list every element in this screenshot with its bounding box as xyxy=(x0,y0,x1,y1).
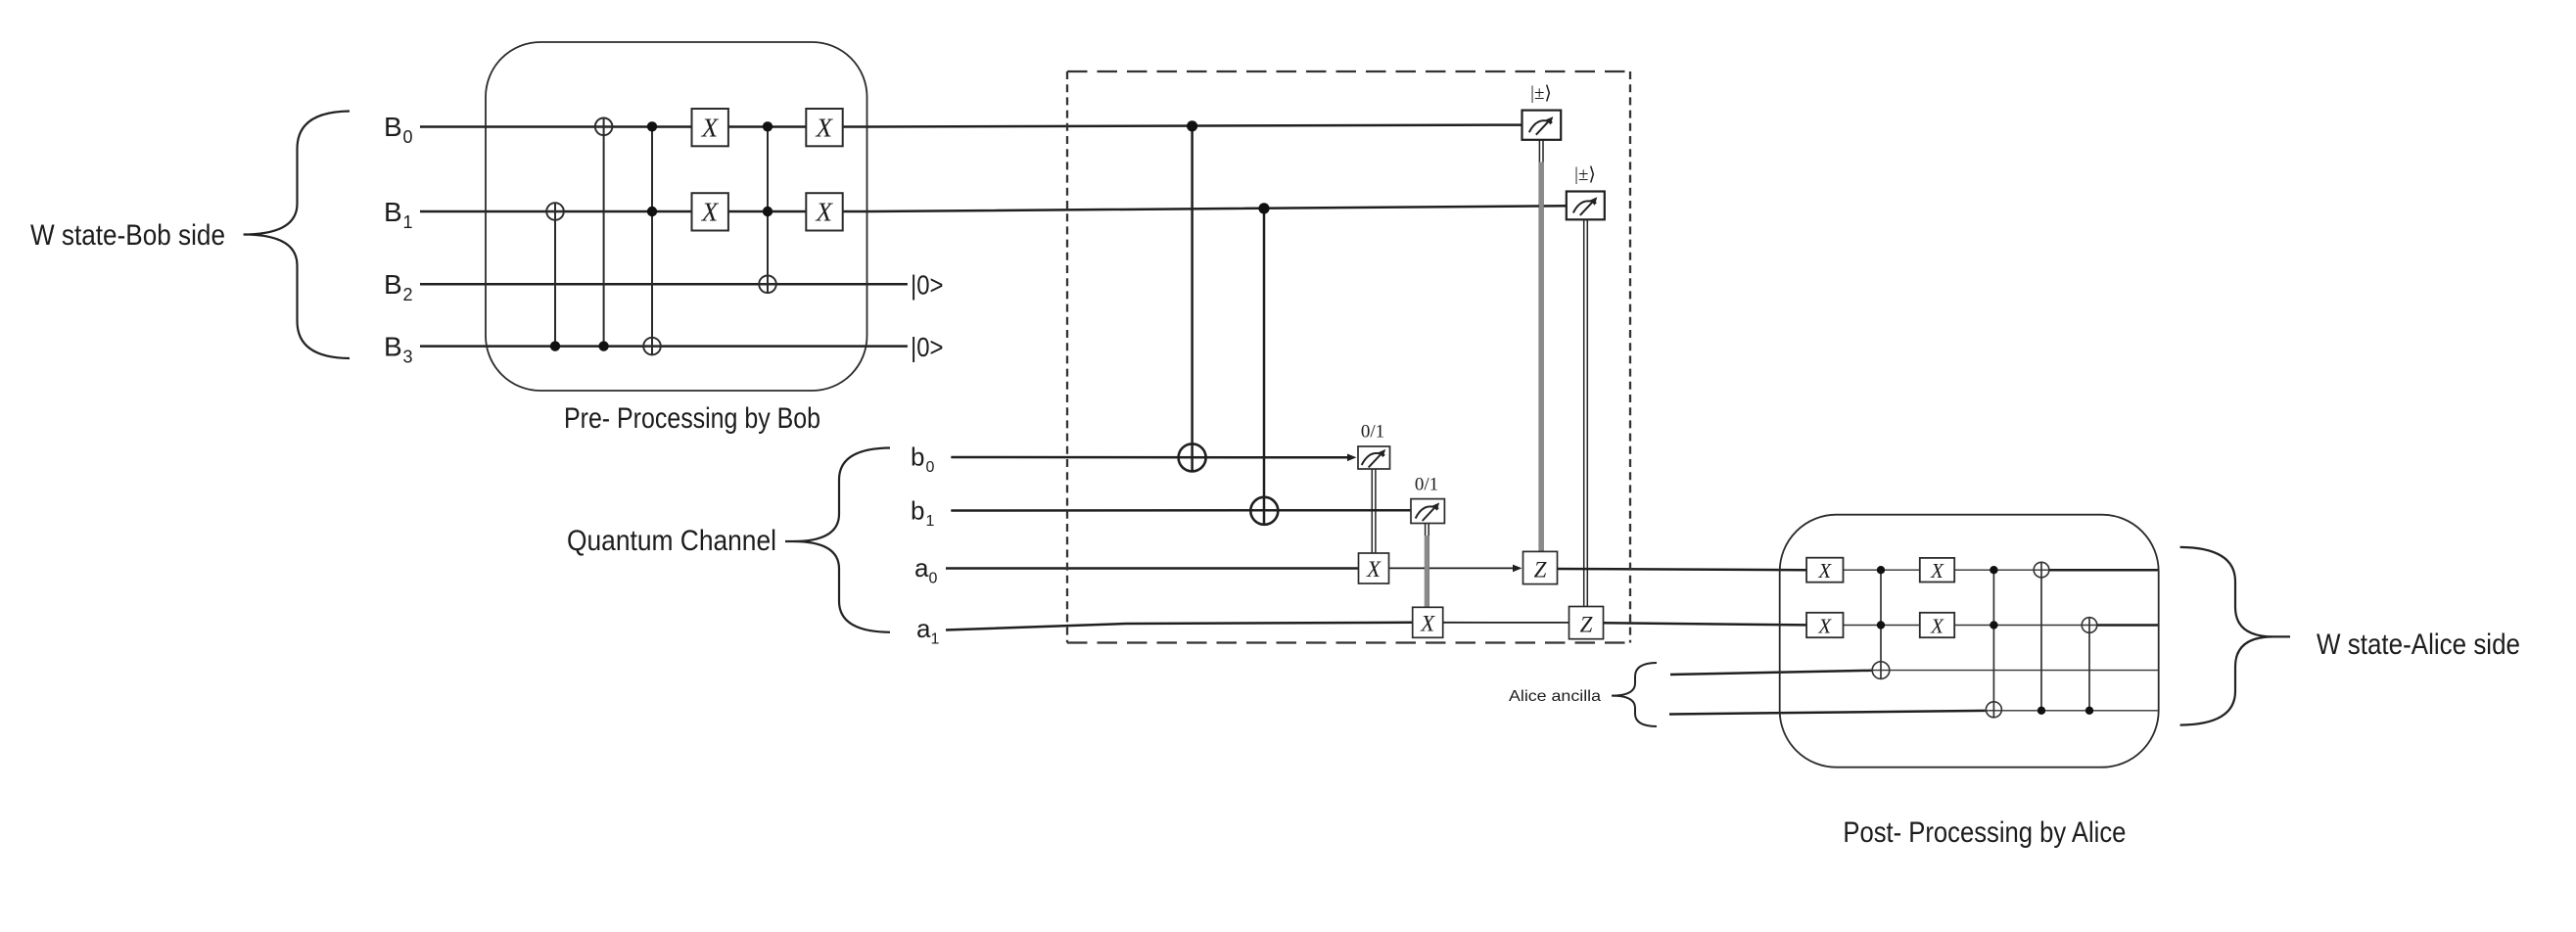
svg-text:Post- Processing by Alice: Post- Processing by Alice xyxy=(1843,816,2126,849)
label: Alice ancilla xyxy=(1509,688,1601,705)
node |0> on B2 xyxy=(911,270,944,301)
wire b0 xyxy=(951,454,1356,462)
svg-text:b: b xyxy=(911,496,924,526)
gate Toffoli (controls a0 a1, target ancilla2) xyxy=(1986,566,2001,718)
svg-text:1: 1 xyxy=(926,513,935,530)
gate X on a1 (classically controlled) xyxy=(1413,607,1443,637)
gate CNOT (target B1, control B3) xyxy=(546,203,564,351)
label: Quantum Channel xyxy=(567,525,776,557)
svg-text:B: B xyxy=(384,197,402,227)
measurement M(B1) with |±> label xyxy=(1567,164,1605,219)
box: Post-Processing by Alice xyxy=(1780,515,2159,768)
svg-text:Pre- Processing by Bob: Pre- Processing by Bob xyxy=(564,402,820,435)
svg-text:X: X xyxy=(816,198,834,227)
svg-text:X: X xyxy=(1420,611,1435,635)
gate Toffoli (controls B0 B1, target B3) xyxy=(643,121,661,354)
brace: left (W state-Bob side) xyxy=(244,112,350,359)
wire B1 xyxy=(420,206,1567,211)
node a0 label xyxy=(914,553,938,587)
gate X on a0 (post, second) xyxy=(1920,558,1954,582)
wire a0 (inside post box, thin) xyxy=(1844,569,2159,571)
classical wire: meas B0 to Z a0 (gray overlay) xyxy=(1539,140,1543,551)
brace: right (W state-Alice side) xyxy=(2180,547,2290,725)
node B2 label xyxy=(384,269,413,304)
measurement M(b0) with 0/1 label xyxy=(1358,422,1390,470)
box: dashed quantum-channel region xyxy=(1067,71,1630,643)
gate CNOT (target B0, control B3) xyxy=(595,118,613,351)
label: W state-Bob side xyxy=(30,219,225,252)
svg-text:B: B xyxy=(384,269,402,300)
svg-text:0: 0 xyxy=(929,571,938,587)
wire ancilla1 xyxy=(1670,671,2158,675)
label: Post- Processing by Alice xyxy=(1843,816,2126,849)
svg-text:X: X xyxy=(816,114,834,143)
gate X on a0 (post, first) xyxy=(1806,558,1843,582)
gate CNOT (control ancilla2, target a0) xyxy=(2034,562,2049,715)
gate CNOT (control B1, target b1) xyxy=(1250,203,1278,525)
gate Z on a1 (classically controlled) xyxy=(1569,607,1604,639)
svg-text:X: X xyxy=(1930,614,1944,637)
svg-text:Z: Z xyxy=(1534,558,1547,582)
svg-text:0/1: 0/1 xyxy=(1361,422,1384,443)
label: W state-Alice side xyxy=(2317,629,2520,661)
svg-text:Z: Z xyxy=(1580,613,1593,637)
gate X on a1 (post, first) xyxy=(1806,613,1843,638)
svg-text:X: X xyxy=(1930,559,1944,582)
svg-text:X: X xyxy=(701,198,720,227)
node b1 label xyxy=(911,496,935,531)
svg-text:|±⟩: |±⟩ xyxy=(1574,164,1596,185)
svg-text:a: a xyxy=(914,553,929,582)
gate X on B0 (first) xyxy=(692,109,728,146)
wire a1 (inside post box, thin) xyxy=(1844,625,2159,627)
gate Toffoli (controls a0 a1, target ancilla1) xyxy=(1872,566,1890,678)
gate X on B1 (second) xyxy=(806,193,842,230)
svg-text:W state-Alice side: W state-Alice side xyxy=(2317,629,2520,661)
svg-text:B: B xyxy=(384,332,402,362)
wire a0 xyxy=(946,565,1806,573)
svg-text:1: 1 xyxy=(403,212,413,232)
svg-text:|±⟩: |±⟩ xyxy=(1530,83,1552,104)
svg-text:B: B xyxy=(384,112,402,142)
svg-text:X: X xyxy=(1817,559,1832,582)
wire a1 xyxy=(946,623,1806,630)
svg-text:X: X xyxy=(1817,614,1832,637)
classical wire: meas b1 to X a1 (gray overlay) xyxy=(1426,524,1429,608)
svg-text:b: b xyxy=(911,443,924,472)
svg-text:0/1: 0/1 xyxy=(1415,475,1438,495)
gate Toffoli (controls B0 B1, target B2) xyxy=(759,121,776,293)
svg-text:X: X xyxy=(701,114,720,143)
box: Pre-Processing by Bob xyxy=(486,42,867,391)
svg-text:X: X xyxy=(1366,557,1382,582)
wire B3 xyxy=(420,345,908,348)
svg-text:a: a xyxy=(916,614,931,643)
node b0 label xyxy=(911,443,935,477)
gate X on B0 (second) xyxy=(806,109,842,146)
svg-text:|0>: |0> xyxy=(911,270,944,301)
wire B2 xyxy=(420,283,908,286)
svg-text:0: 0 xyxy=(926,459,935,476)
svg-text:Alice ancilla: Alice ancilla xyxy=(1509,688,1601,705)
classical wire: meas B1 to Z a1 xyxy=(1584,220,1588,607)
node |0> on B3 xyxy=(911,332,944,362)
classical wire: meas b0 to X a0 xyxy=(1372,469,1376,553)
measurement M(b1) with 0/1 label xyxy=(1411,475,1444,524)
wire ancilla2 xyxy=(1669,711,2158,715)
svg-text:Quantum Channel: Quantum Channel xyxy=(567,525,776,557)
label: Pre- Processing by Bob xyxy=(564,402,820,435)
node B0 label xyxy=(384,112,413,147)
svg-text:0: 0 xyxy=(403,127,413,147)
gate CNOT (control ancilla2, target a1) xyxy=(2082,618,2097,715)
svg-text:1: 1 xyxy=(931,631,940,648)
svg-text:3: 3 xyxy=(403,348,413,367)
node a1 label xyxy=(916,614,940,648)
svg-text:2: 2 xyxy=(403,285,413,304)
node B3 label xyxy=(384,332,413,367)
gate CNOT (control B0, target b0) xyxy=(1179,120,1206,471)
gate X on B1 (first) xyxy=(692,193,728,230)
wire B0 xyxy=(420,125,1522,127)
gate X on a1 (post, second) xyxy=(1920,613,1954,638)
brace: Quantum Channel xyxy=(785,448,890,632)
brace: Alice ancilla xyxy=(1612,663,1657,726)
node B1 label xyxy=(384,197,413,232)
gate X on a0 (classically controlled) xyxy=(1359,553,1389,583)
svg-text:W state-Bob side: W state-Bob side xyxy=(30,219,225,252)
svg-text:|0>: |0> xyxy=(911,332,944,362)
wire b1 xyxy=(951,509,1411,512)
measurement M(B0) with |±> label xyxy=(1522,83,1562,140)
gate Z on a0 (classically controlled) xyxy=(1523,551,1558,583)
